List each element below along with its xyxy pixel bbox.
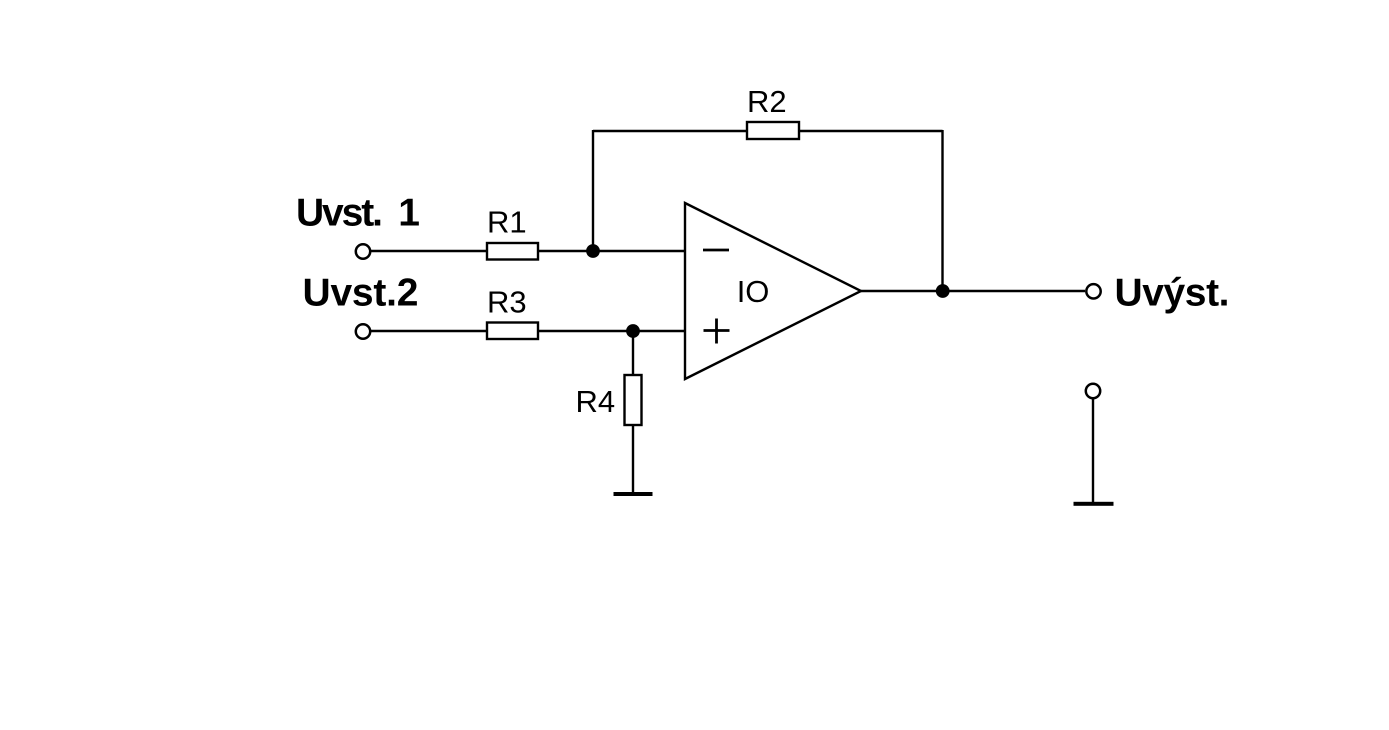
resistor R2 bbox=[747, 122, 799, 139]
resistor R1 bbox=[487, 243, 538, 260]
wire: feedback left vertical down to inverting node bbox=[592, 130, 594, 251]
svg-text:Uvýst.: Uvýst. bbox=[1115, 272, 1230, 315]
ground: below R4 bbox=[614, 492, 653, 496]
wire: input 1 to R1 bbox=[371, 250, 592, 252]
svg-text:R2: R2 bbox=[747, 84, 787, 119]
ground: bottom right bbox=[1074, 502, 1114, 506]
svg-text:Uvst.2: Uvst.2 bbox=[303, 272, 419, 315]
junction: output node bbox=[936, 284, 950, 298]
junction: non-inverting input node bbox=[626, 324, 640, 338]
wire: input 2 to R3 bbox=[371, 330, 633, 332]
junction: inverting input node bbox=[586, 244, 600, 258]
resistor R4 bbox=[625, 375, 642, 425]
svg-text:Uvst. 1: Uvst. 1 bbox=[296, 192, 420, 235]
wire: feedback right vertical down to output node bbox=[941, 130, 943, 291]
svg-text:IO: IO bbox=[737, 274, 770, 309]
terminal: input 2 circle bbox=[356, 324, 370, 338]
svg-text:R3: R3 bbox=[487, 285, 527, 320]
op-amp minus input symbol bbox=[703, 249, 729, 252]
resistor R3 bbox=[487, 323, 538, 340]
wire: op-amp output to output terminal bbox=[861, 290, 1085, 292]
wire: reference terminal down to ground bbox=[1092, 399, 1094, 502]
terminal: output circle bbox=[1086, 284, 1100, 298]
terminal: input 1 circle bbox=[356, 244, 370, 258]
op-amp IO triangle bbox=[685, 203, 861, 379]
wire: node down to R4 and ground bbox=[632, 331, 634, 492]
wire: non-inverting node to op-amp bbox=[633, 330, 686, 332]
wire: inverting node to op-amp bbox=[592, 250, 686, 252]
terminal: reference circle bottom right bbox=[1086, 384, 1100, 398]
svg-text:R4: R4 bbox=[576, 384, 616, 419]
svg-text:R1: R1 bbox=[487, 205, 527, 240]
op-amp plus input symbol bbox=[704, 319, 730, 344]
wire: feedback top horizontal (node A to output node) bbox=[593, 130, 943, 132]
